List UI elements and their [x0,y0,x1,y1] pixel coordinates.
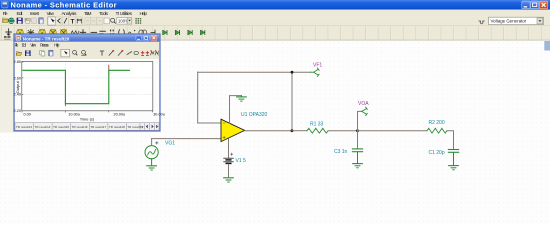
pen icon 1 [109,51,113,56]
transient artifacts [64,101,66,107]
inner toolbar [16,49,158,57]
peaks icon 1 [150,51,154,55]
wire: VG1 top vertical [151,139,153,146]
wire: R2 to C1 corner [447,131,454,149]
wire: node VOA down to C3 [357,131,359,149]
svg-text:Output: Output [15,80,20,93]
wire: feedback right vertical [291,72,293,131]
canvas background [0,41,550,225]
partial icon at edge [157,50,159,56]
svg-text:C1 20p: C1 20p [429,150,445,156]
meter icon 3 [50,29,57,36]
menu bar [0,10,550,17]
V1 plus mark [231,153,233,155]
zoom combo 100% [117,18,127,24]
wire: feedback into inverting input [198,122,221,124]
svg-text:Voltage Generator: Voltage Generator [491,19,527,24]
pen / slash icon [62,17,68,25]
svg-text:0.00: 0.00 [24,113,31,117]
diode icon 2 [175,30,179,35]
open folder icon [3,19,9,22]
svg-text:2.20: 2.20 [14,109,21,113]
svg-text:T&M: T&M [84,11,92,17]
resistor R2 [427,128,447,133]
trace [22,70,130,103]
svg-text:TR result17: TR result17 [90,125,106,129]
svg-text:R1 33: R1 33 [310,121,324,127]
svg-text:Noname - Schematic Editor: Noname - Schematic Editor [11,0,117,9]
plus icon [80,29,86,36]
globe icon [8,18,14,24]
svg-text:30.00u: 30.00u [153,113,165,117]
probe icon dark [27,29,34,36]
left panel strip [0,41,14,133]
tab row [15,123,159,131]
capacitor C1 [448,150,458,153]
svg-text:View: View [30,43,37,48]
svg-text:Help: Help [54,43,60,48]
red cross icon 2 [146,51,149,54]
svg-text:Edit: Edit [17,11,24,17]
ruler icon [127,51,132,54]
wire: C3 to ground [357,152,359,163]
cursor button pressed [61,49,70,57]
voltage generator combo [489,17,544,24]
ellipse icon [134,51,138,54]
wire: battery to ground [228,164,230,177]
ground (C3) [353,164,363,168]
svg-text:U1 OPA320: U1 OPA320 [241,112,268,118]
peaks icon 2 [155,51,159,55]
wire: node VOA to R2 [358,130,428,132]
dots icon [110,30,114,35]
meter icon 4 [60,29,67,36]
pen icon 2 [118,51,122,56]
node VOA junction [356,129,359,132]
svg-text:T: T [71,19,75,26]
battery V1 [224,158,234,163]
paste icon [39,18,44,24]
cursor tool T icon [100,51,104,56]
node B (output junction) [291,129,294,132]
zoom in icon [73,50,77,54]
wire: feedback left vertical [197,72,199,123]
wave icon [128,32,133,35]
zoom magnifier icon [111,18,115,22]
wire: op-amp output [245,130,292,132]
save floppy icon [17,18,23,24]
scissors-like icon [56,17,62,25]
svg-text:20.00u: 20.00u [114,113,126,117]
grid toggle icon [135,18,141,24]
node A (feedback top junction) [291,71,294,74]
meter icon 2 [39,29,46,36]
voltage pin VOA [362,107,368,115]
paste icon [49,50,53,56]
equals icon [99,31,105,34]
svg-text:TR result16: TR result16 [72,125,88,129]
diode icon 3 [188,30,192,35]
stray mark left edge [4,36,10,39]
svg-text:R2 200: R2 200 [429,120,445,126]
ground (VG1) [147,166,157,170]
svg-text:View: View [47,11,55,17]
ground (V1) [224,178,234,182]
white checkbox button [104,18,109,24]
svg-text:TI Utilities: TI Utilities [116,11,133,17]
svg-text:Help: Help [140,11,148,17]
main title bar [0,0,550,10]
svg-text:Analysis: Analysis [62,11,78,17]
svg-text:File: File [3,11,8,17]
greyed page icon [32,18,37,24]
selection arrow button (pressed) [48,17,56,25]
wire: R1 to node VOA [328,130,357,132]
svg-text:V1 5: V1 5 [236,158,247,164]
voltage pin VF1 [311,68,320,76]
wire: feedback top horizontal [198,71,292,73]
copy icon [40,50,44,54]
diode icon 4 [200,30,204,35]
resistor R1 [307,128,328,133]
diode icon 1 [163,30,167,35]
ground (op-amp V+ pin) [237,96,247,102]
minus icon [91,31,97,33]
wire: VOA probe riser [358,111,362,130]
generator select icon [479,21,485,24]
folder icon [16,53,22,56]
svg-text:TR result18: TR result18 [109,125,125,129]
wire: junction to VF1 [292,71,311,73]
toolbar row 1 [0,17,550,26]
wire: VG1 to non-inverting input [152,138,221,140]
svg-text:Tools: Tools [99,11,109,17]
wire tool icon [5,28,11,35]
op-amp U1 [221,119,245,141]
svg-text:VF1: VF1 [313,63,322,69]
chart area [15,59,159,123]
op-amp input marks [223,123,225,139]
scrollbar fragment top right [544,41,550,51]
svg-text:Time (s): Time (s) [80,116,95,121]
terminator icon [151,30,155,35]
svg-text:VG1: VG1 [165,141,175,147]
red cross icon 1 [141,51,144,54]
print icon [25,18,30,21]
wire: op-amp positive supply up [230,96,242,124]
toolbar row 2 [0,26,550,41]
VG1 plus mark [156,142,158,144]
svg-text:File: File [15,43,19,48]
svg-text:TR result13: TR result13 [16,125,32,129]
voltage generator VG1 [145,146,158,159]
INNER WINDOW [14,34,165,131]
svg-text:TR result14: TR result14 [35,125,51,129]
svg-text:10.00u: 10.00u [68,113,80,117]
svg-text:2.60: 2.60 [14,76,21,80]
coupled coils icon [139,30,144,35]
svg-text:VOA: VOA [358,101,369,107]
wire: op-amp negative supply down [228,139,230,158]
ground (C1) [449,166,459,170]
svg-text:Process: Process [40,43,49,48]
wire: node B to R1 [292,130,307,132]
svg-text:Insert: Insert [30,11,40,17]
crossed box icon [76,17,83,25]
svg-text:TR result15: TR result15 [53,125,69,129]
zigzag icon [71,31,79,35]
greyed buttons group [85,17,103,25]
capacitor C3 [352,149,362,152]
svg-text:2.80: 2.80 [14,60,21,64]
wire: C1 to ground [453,153,455,165]
wire: VG1 to ground [151,159,153,166]
text T icon [69,17,76,25]
save icon [25,51,30,56]
meter icon 1 [17,29,24,36]
zoom region icon [82,50,86,54]
brackets icon [119,29,125,35]
svg-text:Noname - TR result20: Noname - TR result20 [23,36,70,42]
svg-text:C3 1n: C3 1n [334,149,348,155]
